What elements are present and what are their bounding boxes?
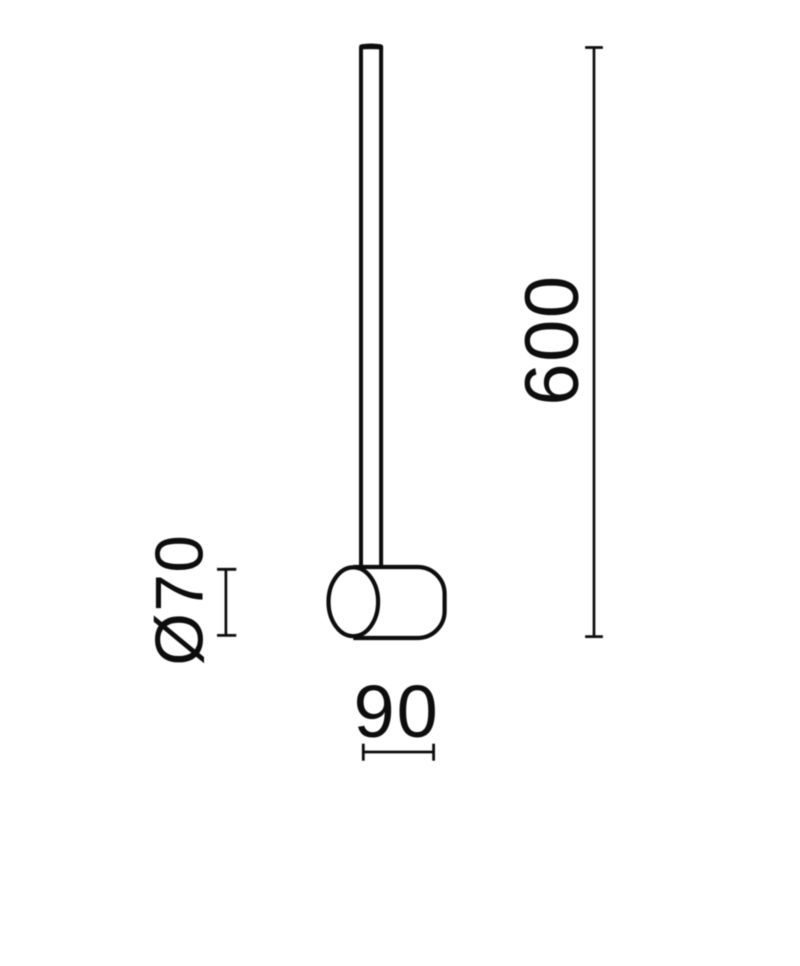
height dimension line 600 <box>593 48 596 637</box>
diameter dimension line O70 <box>225 569 228 635</box>
height dimension top tick <box>585 46 603 49</box>
lamp stem tube <box>361 48 381 569</box>
height dimension bottom tick <box>585 635 603 638</box>
svg-text:Ø70: Ø70 <box>142 534 217 666</box>
lamp tube top cap <box>359 44 383 50</box>
width dimension right tick <box>432 744 435 761</box>
width dimension left tick <box>362 744 365 761</box>
diameter dimension bottom tick <box>217 634 236 637</box>
svg-text:90: 90 <box>353 670 439 753</box>
width dimension line 90 <box>363 751 433 754</box>
diameter dimension top tick <box>217 568 236 571</box>
cylinder body <box>353 567 444 638</box>
svg-text:600: 600 <box>510 274 595 405</box>
cylinder front face ellipse <box>329 567 379 636</box>
